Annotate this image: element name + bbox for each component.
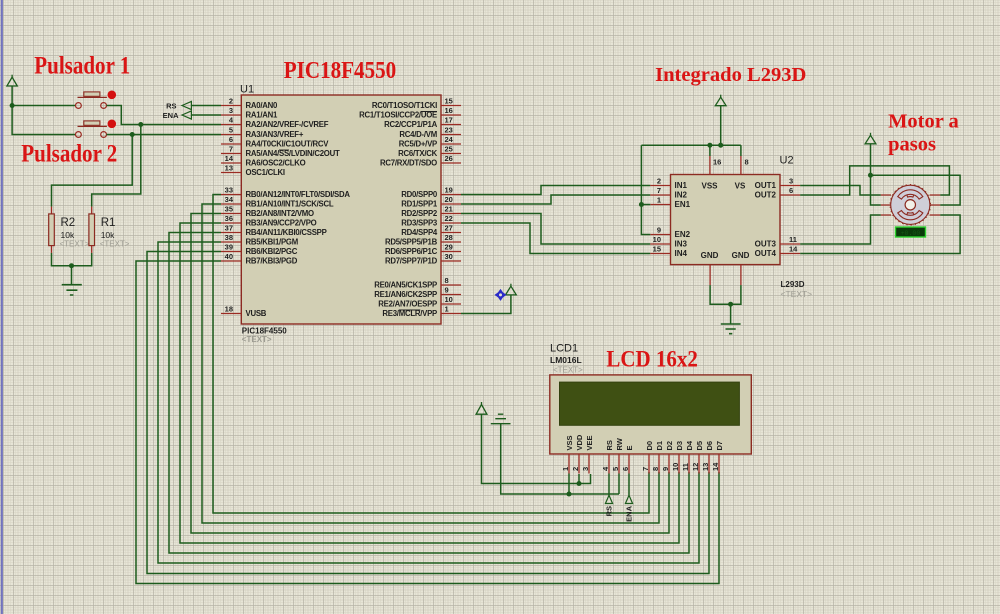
svg-text:RB6/KBI2/PGC: RB6/KBI2/PGC xyxy=(246,247,298,256)
terminal ENA xyxy=(182,111,191,119)
motor angle readout xyxy=(896,227,926,237)
svg-text:D4: D4 xyxy=(685,440,694,450)
svg-text:RA1/AN1: RA1/AN1 xyxy=(246,111,279,120)
power terminal MCLR xyxy=(506,284,517,295)
resistor R1 xyxy=(89,207,95,253)
svg-text:16: 16 xyxy=(445,106,453,115)
L293D pin 11 OUT3 xyxy=(780,243,800,245)
junction VSS rail xyxy=(707,143,712,148)
L293D pin 2 IN1 xyxy=(650,185,670,187)
wire power rail xyxy=(641,144,741,146)
svg-text:Integrado L293D: Integrado L293D xyxy=(655,64,806,86)
svg-text:RC2/CCP1/P1A: RC2/CCP1/P1A xyxy=(384,120,438,129)
overline UOE (RC1) xyxy=(421,111,437,113)
svg-text:13: 13 xyxy=(701,463,710,471)
wire VDD drop xyxy=(578,474,580,484)
svg-text:12: 12 xyxy=(691,463,700,471)
svg-text:11: 11 xyxy=(789,235,797,244)
svg-text:22: 22 xyxy=(445,214,453,223)
svg-text:RA2/AN2/VREF-/CVREF: RA2/AN2/VREF-/CVREF xyxy=(246,120,329,129)
pin 15 (right PIC) xyxy=(441,105,461,107)
svg-text:RA4/T0CKI/C1OUT/RCV: RA4/T0CKI/C1OUT/RCV xyxy=(246,140,330,149)
LCD pin 14 D7 xyxy=(718,454,720,474)
pin 17 (right PIC) xyxy=(441,124,461,126)
svg-text:VSS: VSS xyxy=(701,182,718,191)
LCD pin 1 VSS xyxy=(568,454,570,474)
svg-text:RD1/SPP1: RD1/SPP1 xyxy=(401,200,438,209)
svg-text:RC0/T1OSO/T1CKI: RC0/T1OSO/T1CKI xyxy=(372,101,437,110)
L293D pin 8 VS xyxy=(740,156,742,175)
svg-text:U1: U1 xyxy=(240,84,254,96)
L293D pin 16 VSS xyxy=(709,156,711,175)
svg-text:RD2/SPP2: RD2/SPP2 xyxy=(401,209,438,218)
svg-text:14: 14 xyxy=(225,154,234,163)
overline SS (RA5) xyxy=(279,149,289,151)
svg-text:33: 33 xyxy=(225,186,233,195)
svg-text:RB4/AN11/KBI0/CSSPP: RB4/AN11/KBI0/CSSPP xyxy=(246,228,327,237)
pin 20 (right PIC) xyxy=(441,203,461,205)
pin 40 (left PIC) xyxy=(221,260,241,262)
svg-text:27: 27 xyxy=(445,224,453,233)
wire OUT4 to motor xyxy=(800,215,960,254)
wire RB4 to LCD D4 xyxy=(169,233,689,554)
svg-text:2: 2 xyxy=(657,177,661,186)
resistor R2 xyxy=(49,207,55,253)
svg-text:RD3/SPP3: RD3/SPP3 xyxy=(401,219,438,228)
wire power to motor left common xyxy=(871,175,881,205)
pin 5 (left PIC) xyxy=(221,134,241,136)
driver IC U2 L293D xyxy=(671,175,781,265)
pushbutton Pulsador 1 xyxy=(76,91,117,109)
ground symbol (R1 R2) xyxy=(62,285,82,295)
svg-text:8: 8 xyxy=(445,276,449,285)
svg-text:LCD 16x2: LCD 16x2 xyxy=(606,346,698,372)
junction motor power xyxy=(868,173,873,178)
pin 24 (right PIC) xyxy=(441,143,461,145)
svg-text:RE2/AN7/OESPP: RE2/AN7/OESPP xyxy=(378,300,437,309)
LCD pin 4 RS xyxy=(608,454,610,474)
svg-text:RE1/AN6/CK2SPP: RE1/AN6/CK2SPP xyxy=(374,290,437,299)
svg-text:18: 18 xyxy=(225,305,233,314)
svg-text:ENA: ENA xyxy=(625,505,634,521)
svg-text:L293D: L293D xyxy=(781,280,805,289)
wire arrow stem xyxy=(720,106,722,146)
svg-text:37: 37 xyxy=(225,224,233,233)
wire VSS drop xyxy=(568,474,570,495)
L293D pin 3 OUT1 xyxy=(780,185,800,187)
svg-text:RD0/SPP0: RD0/SPP0 xyxy=(401,190,438,199)
wire power to motor right common xyxy=(871,175,961,205)
pin 27 (right PIC) xyxy=(441,232,461,234)
svg-text:15: 15 xyxy=(445,97,453,106)
svg-text:OUT1: OUT1 xyxy=(755,181,777,190)
wire resistor bottoms xyxy=(52,253,92,266)
svg-text:24: 24 xyxy=(445,135,454,144)
svg-text:RB2/AN8/INT2/VMO: RB2/AN8/INT2/VMO xyxy=(246,209,315,218)
svg-text:LCD1: LCD1 xyxy=(550,343,578,355)
svg-text:RA6/OSC2/CLKO: RA6/OSC2/CLKO xyxy=(246,159,306,168)
LCD pin 6 E xyxy=(628,454,630,474)
junction resistor gnd node xyxy=(69,263,74,268)
pin 19 (right PIC) xyxy=(441,194,461,196)
pin 6 (left PIC) xyxy=(221,143,241,145)
svg-text:7: 7 xyxy=(229,145,233,154)
pin 16 (right PIC) xyxy=(441,114,461,116)
svg-text:GND: GND xyxy=(701,251,719,260)
wire RD3 to IN4 xyxy=(461,223,650,254)
wire to ground L293D xyxy=(730,304,732,324)
PIC18F4550 microcontroller U1 xyxy=(241,95,441,324)
svg-text:RW: RW xyxy=(615,437,624,450)
wire MCLR to power xyxy=(461,295,511,314)
LCD pin 2 VDD xyxy=(578,454,580,474)
svg-text:29: 29 xyxy=(445,243,453,252)
pin 33 (left PIC) xyxy=(221,194,241,196)
wire to ground xyxy=(71,266,73,285)
ground bars terminal LCD xyxy=(491,414,511,424)
svg-text:Pulsador 1: Pulsador 1 xyxy=(34,53,130,80)
svg-text:VDD: VDD xyxy=(575,434,584,450)
wire GND pins join xyxy=(710,285,741,304)
ground symbol (L293D) xyxy=(721,324,741,334)
svg-text:RA5/AN4/SS/LVDIN/C2OUT: RA5/AN4/SS/LVDIN/C2OUT xyxy=(246,149,340,158)
svg-text:D7: D7 xyxy=(715,441,724,451)
LCD screen xyxy=(560,382,740,425)
svg-text:D3: D3 xyxy=(675,441,684,451)
pin 13 (left PIC) xyxy=(221,172,241,174)
junction VSS xyxy=(567,492,572,497)
pushbutton Pulsador 2 xyxy=(76,120,117,138)
svg-text:11: 11 xyxy=(681,463,690,471)
stepper motor pins xyxy=(881,195,940,215)
svg-text:10: 10 xyxy=(445,295,453,304)
svg-text:5: 5 xyxy=(611,467,620,471)
svg-text:pasos: pasos xyxy=(888,133,936,155)
pin 30 (right PIC) xyxy=(441,260,461,262)
svg-text:RC6/TX/CK: RC6/TX/CK xyxy=(398,149,438,158)
svg-text:10: 10 xyxy=(653,235,661,244)
svg-text:VS: VS xyxy=(735,182,746,191)
svg-text:25: 25 xyxy=(445,145,453,154)
wire OUT3 to motor xyxy=(800,215,881,244)
blue origin marker xyxy=(495,289,507,301)
svg-text:RE0/AN5/CK1SPP: RE0/AN5/CK1SPP xyxy=(374,281,437,290)
LCD pin 3 VEE xyxy=(588,454,590,474)
svg-text:RC5/D+/VP: RC5/D+/VP xyxy=(399,140,437,149)
svg-text:<TEXT>: <TEXT> xyxy=(60,240,90,249)
svg-text:19: 19 xyxy=(445,186,453,195)
svg-text:RD7/SPP7/P1D: RD7/SPP7/P1D xyxy=(385,257,438,266)
sheet border xyxy=(1,0,3,614)
svg-text:ENA: ENA xyxy=(163,111,179,120)
svg-text:VSS: VSS xyxy=(565,435,574,450)
L293D pin 9 EN2 xyxy=(650,234,670,236)
pin 21 (right PIC) xyxy=(441,213,461,215)
LCD pin 10 D3 xyxy=(678,454,680,474)
L293D pin 1 EN1 xyxy=(650,204,670,206)
pin 39 (left PIC) xyxy=(221,251,241,253)
svg-text:OUT3: OUT3 xyxy=(755,240,777,249)
wire LCD RS xyxy=(608,474,610,496)
power terminal L293D xyxy=(715,95,726,106)
svg-text:23: 23 xyxy=(445,126,453,135)
wire RS to PIC xyxy=(191,105,221,107)
svg-text:<TEXT>: <TEXT> xyxy=(242,335,272,344)
svg-text:<TEXT>: <TEXT> xyxy=(100,240,130,249)
svg-text:35: 35 xyxy=(225,205,233,214)
svg-text:OUT4: OUT4 xyxy=(755,249,777,258)
svg-text:OUT2: OUT2 xyxy=(755,191,777,200)
junction GND xyxy=(728,302,733,307)
wire RD0 to IN1 xyxy=(461,186,650,195)
wire to button2 xyxy=(12,106,75,135)
svg-text:10k: 10k xyxy=(61,230,75,240)
pin 25 (right PIC) xyxy=(441,153,461,155)
pin 35 (left PIC) xyxy=(221,213,241,215)
LCD pin 9 D2 xyxy=(668,454,670,474)
L293D GND pin stubs xyxy=(710,265,741,286)
wire rail to EN2 xyxy=(641,145,650,234)
pin 10 (right PIC) xyxy=(441,303,461,305)
svg-text:36: 36 xyxy=(225,214,233,223)
wire OUT2 to motor xyxy=(800,166,949,195)
pin 38 (left PIC) xyxy=(221,241,241,243)
svg-text:<TEXT>: <TEXT> xyxy=(781,289,813,299)
svg-text:PIC18F4550: PIC18F4550 xyxy=(242,326,287,335)
svg-text:RC4/D-/VM: RC4/D-/VM xyxy=(399,130,437,139)
svg-text:38: 38 xyxy=(225,233,233,242)
svg-text:30: 30 xyxy=(445,252,453,261)
svg-text:2: 2 xyxy=(571,467,580,471)
pin 36 (left PIC) xyxy=(221,222,241,224)
wire ENA to PIC xyxy=(191,114,221,116)
svg-text:21: 21 xyxy=(445,205,453,214)
svg-text:28: 28 xyxy=(445,233,453,242)
svg-text:6: 6 xyxy=(789,186,793,195)
svg-text:VUSB: VUSB xyxy=(246,309,267,318)
svg-text:LM016L: LM016L xyxy=(550,355,582,365)
svg-text:R1: R1 xyxy=(101,217,116,229)
svg-text:8: 8 xyxy=(745,158,749,167)
LCD pin 7 D0 xyxy=(648,454,650,474)
wire RW drop xyxy=(618,474,620,495)
svg-text:RB1/AN10/INT1/SCK/SCL: RB1/AN10/INT1/SCK/SCL xyxy=(246,200,334,209)
svg-text:1: 1 xyxy=(657,196,661,205)
LCD pin 12 D5 xyxy=(698,454,700,474)
wire to R1 top xyxy=(92,125,141,207)
wire VSS up xyxy=(709,145,711,156)
svg-text:RB0/AN12/INT0/FLT0/SDI/SDA: RB0/AN12/INT0/FLT0/SDI/SDA xyxy=(246,190,351,199)
pin 18 (left PIC) xyxy=(221,313,241,315)
pin 9 (right PIC) xyxy=(441,294,461,296)
svg-text:IN4: IN4 xyxy=(675,249,688,258)
svg-text:E: E xyxy=(625,445,634,450)
svg-text:RD6/SPP6/P1C: RD6/SPP6/P1C xyxy=(385,247,438,256)
svg-text:PIC18F4550: PIC18F4550 xyxy=(284,57,396,84)
svg-text:RS: RS xyxy=(605,506,614,516)
junction R1 tap xyxy=(138,122,143,127)
svg-text:6: 6 xyxy=(621,467,630,471)
svg-text:OSC1/CLKI: OSC1/CLKI xyxy=(246,168,285,177)
pin 26 (right PIC) xyxy=(441,162,461,164)
pin 1 (right PIC) xyxy=(441,313,461,315)
wire power to VDD VEE xyxy=(482,414,591,483)
svg-text:10: 10 xyxy=(671,463,680,471)
wire RB3 to LCD D3 xyxy=(180,223,679,543)
svg-text:IN2: IN2 xyxy=(675,191,688,200)
svg-text:3: 3 xyxy=(789,177,793,186)
L293D pin 6 OUT2 xyxy=(780,194,800,196)
svg-text:15: 15 xyxy=(653,245,661,254)
svg-text:R2: R2 xyxy=(61,217,76,229)
svg-text:IN1: IN1 xyxy=(675,181,688,190)
svg-text:RA3/AN3/VREF+: RA3/AN3/VREF+ xyxy=(246,130,304,139)
svg-text:RD5/SPP5/P1B: RD5/SPP5/P1B xyxy=(385,238,438,247)
pin 14 (left PIC) xyxy=(221,162,241,164)
pin 3 (left PIC) xyxy=(221,114,241,116)
svg-text:3: 3 xyxy=(581,467,590,471)
svg-text:26: 26 xyxy=(445,154,453,163)
LCD pin 8 D1 xyxy=(658,454,660,474)
pin 4 (left PIC) xyxy=(221,124,241,126)
svg-text:13: 13 xyxy=(225,164,233,173)
svg-text:+0.00: +0.00 xyxy=(901,230,921,237)
svg-text:D2: D2 xyxy=(665,441,674,451)
LCD pin 5 RW xyxy=(618,454,620,474)
terminal RS xyxy=(182,101,191,109)
LCD pin 11 D4 xyxy=(688,454,690,474)
svg-text:GND: GND xyxy=(732,251,750,260)
svg-text:RC7/RX/DT/SDO: RC7/RX/DT/SDO xyxy=(380,159,437,168)
svg-text:RA0/AN0: RA0/AN0 xyxy=(246,101,279,110)
svg-text:RB3/AN9/CCP2/VPO: RB3/AN9/CCP2/VPO xyxy=(246,219,317,228)
wire OUT1 to motor xyxy=(800,186,881,196)
svg-text:9: 9 xyxy=(661,467,670,471)
wire RD2 to IN3 xyxy=(461,214,650,245)
junction power node xyxy=(10,103,15,108)
pin 34 (left PIC) xyxy=(221,203,241,205)
svg-text:1: 1 xyxy=(445,305,449,314)
svg-text:1: 1 xyxy=(561,467,570,471)
svg-text:2: 2 xyxy=(229,97,233,106)
svg-text:<TEXT>: <TEXT> xyxy=(553,366,583,375)
wire button2 to RA3 pin5 xyxy=(107,134,222,136)
svg-text:D6: D6 xyxy=(705,441,714,451)
wire RB0 to LCD D0 xyxy=(213,195,649,514)
power terminal VCC top-left xyxy=(7,75,17,86)
junction arrow rail xyxy=(718,143,723,148)
svg-text:34: 34 xyxy=(225,195,234,204)
wire power to node xyxy=(11,86,13,106)
svg-text:16: 16 xyxy=(713,158,721,167)
svg-text:D1: D1 xyxy=(655,441,664,451)
svg-text:EN2: EN2 xyxy=(675,230,691,239)
wire RB5 to LCD D5 xyxy=(158,242,699,563)
svg-text:RS: RS xyxy=(166,101,176,110)
pin 7 (left PIC) xyxy=(221,153,241,155)
svg-text:10k: 10k xyxy=(101,230,115,240)
svg-text:40: 40 xyxy=(225,252,233,261)
svg-text:IN3: IN3 xyxy=(675,240,688,249)
power terminal LCD VDD xyxy=(476,402,487,414)
svg-text:D0: D0 xyxy=(645,441,654,451)
pin 29 (right PIC) xyxy=(441,251,461,253)
wire RB6 to LCD D6 xyxy=(147,252,709,574)
junction EN1 xyxy=(639,202,644,207)
svg-text:RD4/SPP4: RD4/SPP4 xyxy=(401,228,438,237)
overline MCLR (RE3) xyxy=(399,309,421,311)
svg-text:14: 14 xyxy=(711,462,720,471)
pin 23 (right PIC) xyxy=(441,134,461,136)
svg-text:3: 3 xyxy=(229,106,233,115)
pin 22 (right PIC) xyxy=(441,222,461,224)
svg-text:17: 17 xyxy=(445,116,453,125)
svg-text:14: 14 xyxy=(789,245,798,254)
pin 2 (left PIC) xyxy=(221,105,241,107)
svg-text:RB5/KBI1/PGM: RB5/KBI1/PGM xyxy=(246,238,298,247)
svg-text:U2: U2 xyxy=(780,155,794,167)
pin 8 (right PIC) xyxy=(441,284,461,286)
L293D pin 14 OUT4 xyxy=(780,253,800,255)
wire VS up xyxy=(740,145,742,156)
wire arrow to node xyxy=(870,144,872,175)
svg-text:RE3/MCLR/VPP: RE3/MCLR/VPP xyxy=(382,309,437,318)
svg-text:VEE: VEE xyxy=(585,435,594,450)
junction R2 tap xyxy=(130,132,135,137)
svg-text:20: 20 xyxy=(445,195,453,204)
L293D pin 15 IN4 xyxy=(650,253,670,255)
LCD display LCD1 LM016L xyxy=(550,375,752,454)
junction VDD xyxy=(577,481,582,486)
svg-text:D5: D5 xyxy=(695,441,704,451)
wire to button1 xyxy=(12,105,75,107)
svg-text:6: 6 xyxy=(229,135,233,144)
svg-text:7: 7 xyxy=(641,467,650,471)
stepper motor body xyxy=(890,185,930,225)
L293D pin 10 IN3 xyxy=(650,243,670,245)
svg-text:5: 5 xyxy=(229,126,233,135)
power terminal motor xyxy=(865,133,876,144)
wire RB7 to LCD D7 xyxy=(136,261,719,584)
wire RD1 to IN2 xyxy=(461,195,650,204)
svg-text:RC1/T1OSI/CCP2/UOE: RC1/T1OSI/CCP2/UOE xyxy=(359,111,437,120)
wire branch EN1 xyxy=(641,204,650,206)
LCD pin 13 D6 xyxy=(708,454,710,474)
svg-text:9: 9 xyxy=(445,286,449,295)
svg-text:Pulsador 2: Pulsador 2 xyxy=(21,141,117,168)
svg-text:RB7/KBI3/PGD: RB7/KBI3/PGD xyxy=(246,257,298,266)
L293D pin 7 IN2 xyxy=(650,194,670,196)
svg-text:9: 9 xyxy=(657,226,661,235)
svg-text:8: 8 xyxy=(651,467,660,471)
svg-text:EN1: EN1 xyxy=(675,200,691,209)
wire RB2 to LCD D2 xyxy=(191,214,669,534)
wire LCD ENA xyxy=(628,474,630,496)
svg-text:RS: RS xyxy=(605,440,614,450)
wire to R2 top xyxy=(52,135,133,207)
svg-text:7: 7 xyxy=(657,186,661,195)
svg-text:39: 39 xyxy=(225,243,233,252)
wire button1 to RA2 pin4 xyxy=(107,106,222,125)
pin 28 (right PIC) xyxy=(441,241,461,243)
wire gnd row to RW xyxy=(501,424,619,494)
pin 37 (left PIC) xyxy=(221,232,241,234)
svg-text:Motor a: Motor a xyxy=(888,111,959,133)
wire RB1 to LCD D1 xyxy=(202,204,659,523)
